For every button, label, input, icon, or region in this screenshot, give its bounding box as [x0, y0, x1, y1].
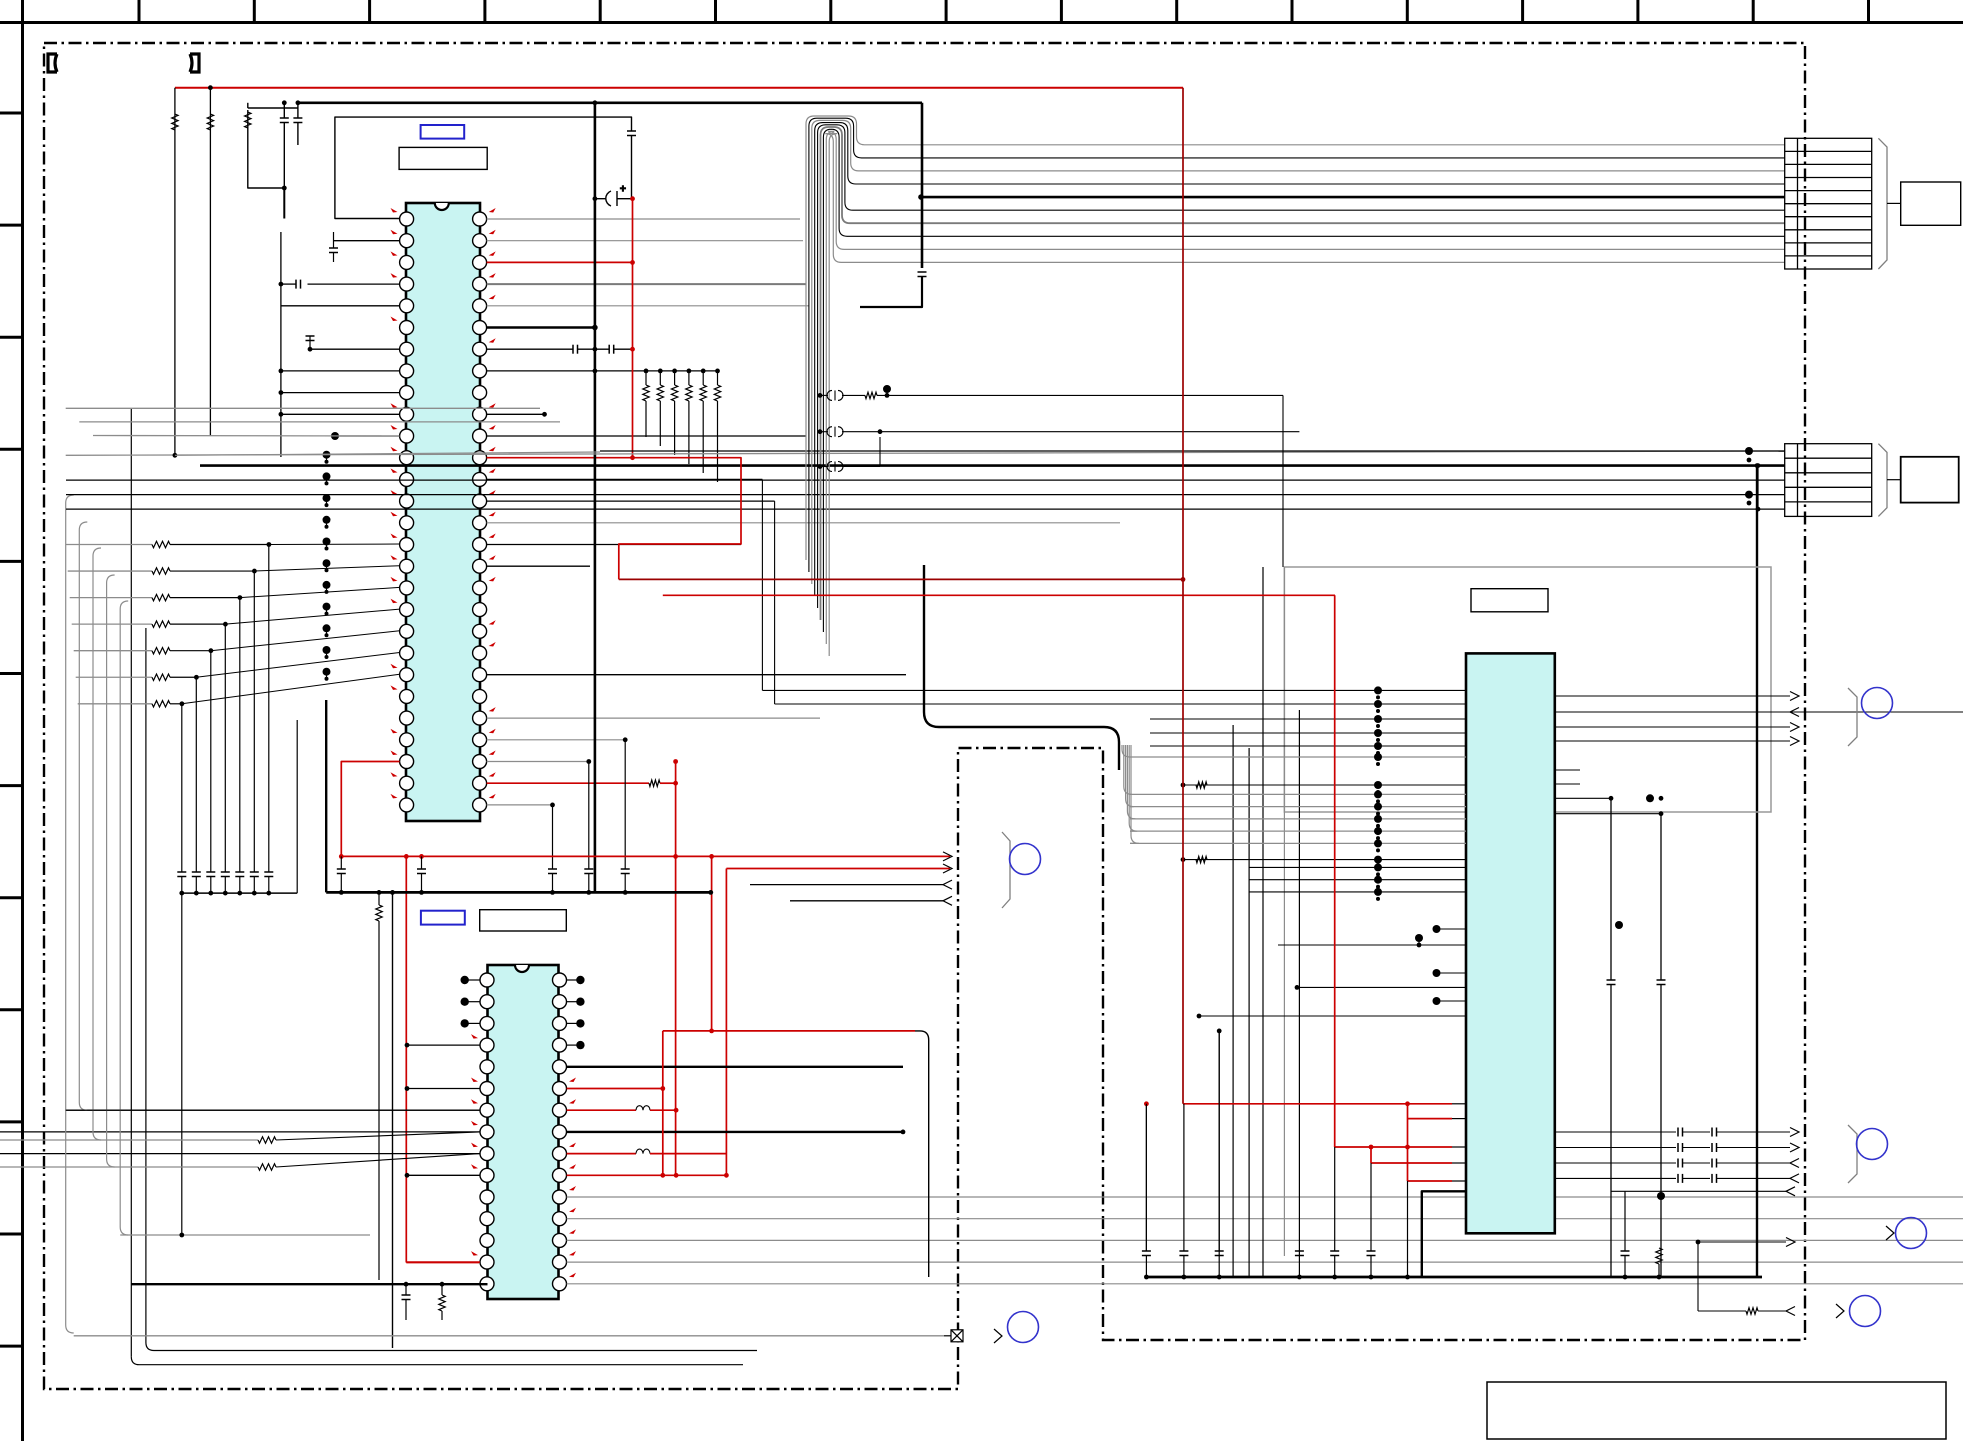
- wire res down: [688, 401, 690, 464]
- junction: [1609, 796, 1614, 801]
- wire v1284 gray: [1283, 567, 1285, 1256]
- wire cap gnd: [340, 874, 342, 893]
- capacitor Cb: [1215, 1251, 1224, 1256]
- wire cap drop: [421, 856, 423, 869]
- resistor row R: [152, 674, 170, 680]
- wire pin27R red: [487, 782, 649, 784]
- wire q9R red: [567, 1153, 636, 1155]
- big dot stub: [1418, 938, 1420, 945]
- wire left bundle: [93, 548, 101, 1140]
- wire ic3 r 712: [1555, 711, 1963, 713]
- wire v1611b: [1610, 985, 1612, 1278]
- capacitor C: [621, 869, 630, 874]
- wire vert left R2 leg: [209, 88, 211, 436]
- NC stub: [465, 1022, 480, 1024]
- top ruler ticks: [139, 0, 1869, 23]
- junction: [1659, 811, 1664, 816]
- wire red v1335 ext: [1334, 1147, 1336, 1251]
- page left ruler line: [21, 0, 24, 1441]
- wire v1263: [1262, 567, 1264, 1277]
- resistor R top-left 1: [172, 114, 178, 130]
- capacitor bank C: [206, 872, 215, 877]
- offpage chevron c: [1836, 1304, 1844, 1318]
- junction: [1623, 1275, 1628, 1280]
- CN2 bracket: [1878, 444, 1887, 517]
- wire cap9 stub: [333, 232, 335, 248]
- wire c6-red: [614, 348, 633, 350]
- wire row q7: [66, 1109, 480, 1111]
- IC U2 pins: [480, 973, 567, 1291]
- arrow: [1786, 1307, 1795, 1316]
- wire riser low: [181, 877, 183, 894]
- wire red v 1183: [1182, 88, 1184, 1104]
- junction: [405, 1086, 410, 1091]
- capacitor C1: [280, 118, 289, 123]
- left ruler ticks: [0, 113, 23, 1346]
- wire red riser 711: [711, 856, 713, 1031]
- connector CN1: [1785, 138, 1872, 269]
- arrow: [1790, 1143, 1799, 1152]
- arrow: [1790, 723, 1799, 732]
- wire seg: [1683, 1177, 1711, 1179]
- big dot: [1415, 934, 1423, 942]
- capacitor bank C: [221, 872, 230, 877]
- wire row gray: [72, 623, 152, 625]
- junction: [223, 622, 228, 627]
- resistor R6: [649, 780, 660, 786]
- IC U1 pins: [400, 212, 487, 812]
- CN1 mate box: [1901, 182, 1961, 225]
- junction: [1405, 1145, 1410, 1150]
- wire v1233: [1232, 725, 1234, 1277]
- wire ic3 gray: [1130, 756, 1466, 758]
- wire cn2 link: [1757, 466, 1759, 510]
- wire p13 drop: [761, 479, 763, 690]
- CN1 bracket: [1878, 138, 1887, 269]
- capacitor Cs2: [1712, 1159, 1717, 1168]
- wire red h 595: [663, 594, 1335, 596]
- wire q10L: [407, 1174, 480, 1176]
- IC U2 pin direction marks: [471, 1034, 576, 1277]
- junction: [1295, 985, 1300, 990]
- svg-text:+: +: [620, 184, 626, 195]
- dot column x1378: [1374, 686, 1382, 901]
- wire qR gray: [567, 1218, 1963, 1220]
- wire ic3 gray: [1130, 818, 1466, 820]
- capacitor bank C: [192, 872, 201, 877]
- junction: [296, 100, 301, 105]
- shield outline (gray): [1284, 567, 1771, 812]
- wire q14L red: [406, 1261, 480, 1263]
- wire row q8 gray: [0, 1139, 258, 1141]
- junction: [673, 781, 678, 786]
- resistor R10: [258, 1164, 276, 1170]
- stub: [1452, 1180, 1466, 1182]
- offpage chevron b: [1886, 1226, 1894, 1240]
- wire capbank bus right up: [296, 720, 298, 893]
- wire left bundle: [66, 495, 74, 1333]
- wire thick elbow: [860, 300, 922, 307]
- junction: [542, 412, 547, 417]
- junction: [405, 1043, 410, 1048]
- wire seg2: [1717, 1147, 1791, 1149]
- part-number box U1 (blue): [421, 125, 465, 139]
- wire riser: [239, 598, 241, 872]
- wire red riser 406: [405, 856, 407, 1262]
- resistor bank R: [700, 385, 706, 401]
- wire cn2 row3: [66, 479, 1785, 481]
- wire cap gnd: [421, 874, 423, 893]
- wire bead3 out: [842, 466, 880, 468]
- junction: [724, 1173, 729, 1178]
- wire q5R thick: [567, 1066, 903, 1068]
- wire qR gray: [567, 1283, 1963, 1285]
- junction: [1405, 1101, 1410, 1106]
- wire c10 drop: [309, 336, 311, 349]
- capacitor Cs1: [1678, 1143, 1683, 1152]
- junction: [390, 890, 395, 895]
- wire c1 up: [283, 103, 285, 118]
- arrow: [1786, 1187, 1795, 1196]
- big dot: [883, 385, 891, 393]
- junction: [586, 759, 591, 764]
- junction: [623, 890, 628, 895]
- wire row to pin: [182, 674, 400, 704]
- wire ic3 in 704: [775, 703, 1466, 705]
- wire thick inner elbow: [924, 565, 1119, 770]
- wire row black: [170, 650, 211, 652]
- junction: [404, 1282, 409, 1287]
- wire row gray: [70, 597, 152, 599]
- capacitor Cb2: [1330, 1251, 1339, 1256]
- arrow: [1790, 1174, 1799, 1183]
- junction: [252, 891, 257, 896]
- wire pin2L: [334, 240, 400, 242]
- wire vert left R1 leg: [174, 88, 176, 456]
- wire red 1181: [1408, 1180, 1453, 1182]
- junction: [818, 393, 823, 398]
- wire riser low: [268, 877, 270, 894]
- wire ic3 lr: [1555, 1162, 1676, 1164]
- wire red riser 675: [675, 762, 677, 1177]
- capacitor Cs2: [1712, 1143, 1717, 1152]
- wire ic3 mid: [1150, 718, 1466, 720]
- resistor bank R: [714, 385, 720, 401]
- wire capv2: [1145, 1256, 1147, 1278]
- junction: [709, 1029, 714, 1034]
- wire to boxed-X: [944, 1335, 951, 1337]
- wire pin11L: [335, 435, 400, 437]
- capacitor C14: [1657, 980, 1666, 985]
- wire capv3: [1334, 1256, 1336, 1278]
- wire red v 1371: [1370, 1147, 1372, 1163]
- arrow out2: [943, 896, 952, 905]
- junction: [405, 1173, 410, 1178]
- wire bead stub: [820, 394, 828, 396]
- junction: [282, 186, 287, 191]
- wire capv3: [1370, 1256, 1372, 1278]
- offpage circle (blue) E: [1850, 1296, 1881, 1327]
- wire rc cluster: [248, 110, 284, 188]
- capacitor bank C: [250, 872, 259, 877]
- wire res down: [659, 401, 661, 446]
- wire pin14R: [487, 500, 775, 502]
- offpage circle (blue): [1008, 1312, 1039, 1343]
- IC U2 body: [488, 965, 559, 1299]
- junction: [901, 1130, 906, 1135]
- wire row gray: [76, 676, 152, 678]
- resistor bank R: [686, 385, 692, 401]
- wire c5-c6: [578, 348, 610, 350]
- junction: [208, 891, 213, 896]
- junction: [674, 1173, 679, 1178]
- junction: [630, 196, 635, 201]
- wire pin28R gray: [487, 804, 553, 806]
- wire ic3 945: [1278, 944, 1466, 946]
- wire ic3 r 727: [1555, 726, 1790, 728]
- wire cn2 row1: [175, 452, 600, 455]
- resistor bank R: [671, 385, 677, 401]
- connector CN2: [1785, 444, 1872, 517]
- wire gnd bus IC2: [404, 1283, 488, 1285]
- wire ic3 low: [1249, 891, 1466, 893]
- wire ic3 mid: [1150, 745, 1466, 747]
- wire row black: [170, 703, 182, 705]
- inductor L1: [636, 1106, 650, 1111]
- capacitor C: [584, 869, 593, 874]
- junction: [593, 196, 598, 201]
- junction: [1745, 447, 1753, 455]
- wire cap gnd: [552, 874, 554, 893]
- capacitor C6: [609, 345, 614, 354]
- arrow: [1790, 737, 1799, 746]
- offpage circle (blue) C: [1857, 1129, 1888, 1160]
- wire q9L: [0, 1153, 480, 1155]
- stub: [1555, 769, 1580, 771]
- junction: [550, 803, 555, 808]
- wire ic3 in 690: [762, 689, 1466, 691]
- wire gnd bus bottom: [1146, 1276, 1762, 1279]
- wire ic3 813: [1555, 813, 1661, 815]
- wire gnd left: [131, 1283, 404, 1285]
- wire red h 1104: [1183, 1103, 1452, 1105]
- wire v1661b: [1660, 985, 1662, 1278]
- junction: [1657, 1275, 1662, 1280]
- junction: [377, 890, 382, 895]
- junction: [709, 854, 714, 859]
- wire capbank left drop: [181, 893, 183, 1235]
- wire row to pin: [196, 653, 399, 678]
- capacitor C4: [627, 131, 636, 136]
- NC dot: [576, 1041, 584, 1049]
- offpage bracket C: [1848, 1125, 1857, 1183]
- wire red rail ext: [712, 855, 950, 857]
- capacitor Cs1: [1678, 1159, 1683, 1168]
- wire res down: [645, 401, 647, 437]
- junction: [179, 1233, 184, 1238]
- capacitor C13: [1607, 980, 1616, 985]
- wire c12 down: [921, 277, 923, 301]
- offpage bracket B: [1848, 688, 1857, 746]
- junction: [592, 325, 598, 331]
- junction: [673, 854, 678, 859]
- wire pin16R: [487, 544, 741, 546]
- resistor row R: [152, 594, 170, 600]
- wire q6L: [407, 1088, 480, 1090]
- resistor R top-left 2: [207, 114, 213, 130]
- junction: [593, 100, 598, 105]
- wire bead2 out: [842, 431, 1299, 433]
- wire ic3 lr: [1555, 1177, 1676, 1179]
- wire gnd drop 392: [392, 892, 394, 1348]
- NC dot: [576, 998, 584, 1006]
- capacitor C8: [296, 280, 301, 289]
- resistor R14: [1746, 1308, 1758, 1314]
- wire row to pin: [225, 609, 399, 624]
- junction: [701, 369, 706, 374]
- wire cap drop: [552, 805, 554, 869]
- wire ic3 1191: [1611, 1190, 1786, 1192]
- wire row to pin: [254, 566, 399, 571]
- wire q10R red: [567, 1174, 727, 1176]
- junction: [1332, 1275, 1337, 1280]
- wire ic3 973: [1437, 972, 1467, 974]
- wire capv: [1218, 1031, 1220, 1251]
- wire capv: [1183, 1104, 1185, 1251]
- wire riser: [195, 677, 197, 872]
- wire p14 drop: [774, 501, 776, 704]
- capacitor C9: [329, 248, 338, 253]
- wire riser: [181, 704, 183, 872]
- ferrite bead FB: [827, 390, 843, 400]
- capacitor C2: [293, 118, 302, 123]
- junction: [1756, 507, 1761, 512]
- wire pin11R: [487, 435, 806, 437]
- junction: [1369, 1275, 1374, 1280]
- wire red-black bend: [915, 1031, 929, 1277]
- wire cap gnd: [588, 874, 590, 893]
- wire ic3 r 696: [1555, 695, 1790, 697]
- wire v1249: [1248, 748, 1250, 1277]
- wire cap drop: [588, 762, 590, 870]
- wire red riser 726: [725, 869, 727, 1177]
- wire row black: [170, 676, 196, 678]
- NC dots column: [323, 451, 331, 681]
- wire red bus 632: [632, 199, 634, 458]
- capacitor bank C: [264, 872, 273, 877]
- wire pin1R gray: [487, 218, 800, 220]
- wire red VCC top: [175, 87, 1183, 89]
- wire res-red: [660, 782, 676, 784]
- junction: [630, 260, 635, 265]
- label box U1: [399, 147, 487, 169]
- junction: [1696, 1240, 1701, 1245]
- wire v1661: [1660, 814, 1662, 980]
- junction: [266, 891, 271, 896]
- title bracket right: [190, 54, 199, 72]
- wire rc loop: [247, 103, 249, 108]
- wire cn2 row1b: [600, 450, 1785, 452]
- junction: [818, 429, 823, 434]
- capacitor bank C: [177, 872, 186, 877]
- resistor R13: [1196, 856, 1207, 862]
- junction: [660, 1086, 665, 1091]
- wire arrow4: [790, 900, 943, 902]
- wire red 1163: [1371, 1162, 1452, 1164]
- wire q4L: [407, 1044, 480, 1046]
- wire left bundle: [107, 575, 115, 1167]
- wire v1698: [1697, 1242, 1699, 1311]
- wire riser low: [224, 877, 226, 894]
- wire bundle to CN1: [806, 116, 1785, 656]
- junction: [209, 648, 214, 653]
- wire ic3 785: [1183, 784, 1466, 786]
- wire ic3 low: [1249, 879, 1466, 881]
- wire pin13R: [487, 478, 763, 480]
- wire red to pin IC2: [406, 1262, 479, 1264]
- wire pin24R gray: [487, 717, 820, 719]
- wire pin9L: [281, 392, 400, 394]
- wire red h 580: [619, 578, 1183, 580]
- resistor R12: [1196, 782, 1207, 788]
- wire gnd bus IC1: [326, 891, 711, 894]
- wire pin7L: [310, 348, 400, 350]
- wire capv: [1145, 1104, 1147, 1251]
- wire left v131 corner: [131, 1357, 743, 1365]
- junction: [1197, 1014, 1202, 1019]
- junction: [1217, 1275, 1222, 1280]
- offpage circle (blue) D: [1896, 1218, 1927, 1249]
- junction: [1181, 783, 1186, 788]
- wire red path mid: [619, 458, 741, 580]
- arrow red in: [943, 852, 952, 861]
- wire gnd bus left leg: [325, 700, 327, 892]
- NC dot: [576, 976, 584, 984]
- junction: [1755, 463, 1760, 468]
- offpage circle (blue) A: [1010, 844, 1041, 875]
- wire bead stub: [820, 431, 828, 433]
- wire left v131: [130, 408, 132, 1357]
- offpage chevron: [994, 1329, 1002, 1343]
- junction: [1405, 1275, 1410, 1280]
- NC dot: [576, 1019, 584, 1027]
- wire row black: [170, 570, 254, 572]
- wire pin12R red: [487, 457, 633, 459]
- wire c2 up: [297, 103, 299, 118]
- wire row gray: [68, 570, 152, 572]
- ferrite bead FB: [827, 462, 843, 472]
- junction: [267, 542, 272, 547]
- wire ic3 gray: [1130, 793, 1466, 795]
- wire vert 281: [280, 232, 282, 457]
- resistor R11: [865, 392, 877, 398]
- wire capv2: [1218, 1256, 1220, 1278]
- wire q6R red: [567, 1088, 663, 1090]
- wire row to pin: [269, 543, 400, 546]
- junction: [630, 347, 635, 352]
- wire q7L: [66, 1109, 480, 1111]
- wire row q8 black: [276, 1132, 480, 1140]
- junction: [1756, 463, 1761, 468]
- big dot: [1646, 794, 1654, 802]
- junction: [644, 369, 649, 374]
- wire q7R red2: [650, 1109, 676, 1111]
- wire r8 dn: [441, 1311, 443, 1320]
- capacitor C: [417, 869, 426, 874]
- junction: [279, 282, 284, 287]
- wire row to pin: [240, 587, 400, 597]
- wire red rail 1031: [663, 1030, 915, 1032]
